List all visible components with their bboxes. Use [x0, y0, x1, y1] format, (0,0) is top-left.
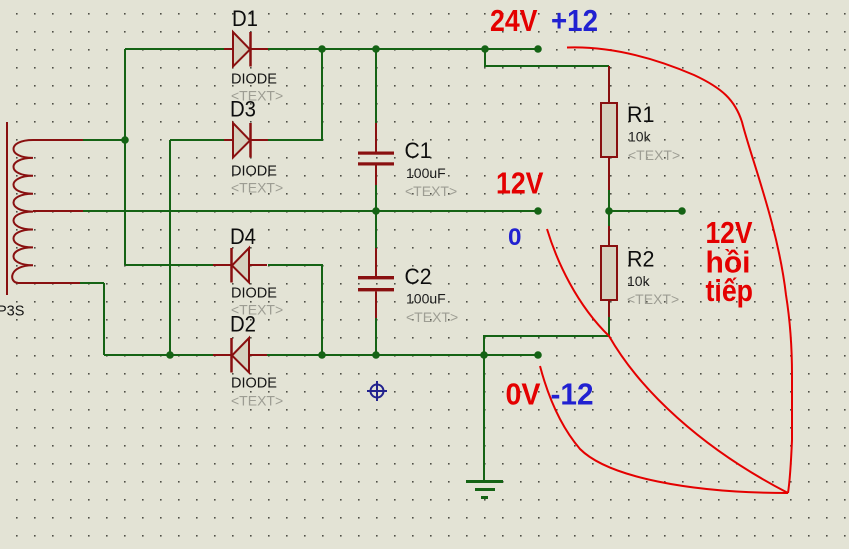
- wire C1 top lead upper: [375, 49, 377, 123]
- diode D3: [233, 123, 250, 158]
- svg-text:<TEXT>: <TEXT>: [628, 147, 680, 163]
- svg-text:DIODE: DIODE: [231, 72, 277, 88]
- wire 24V rail: [268, 48, 538, 50]
- wire 0V bottom rail: [267, 354, 538, 356]
- wire top tap to node: [83, 139, 125, 141]
- svg-text:24V: 24V: [490, 3, 538, 38]
- svg-text:<TEXT>: <TEXT>: [405, 183, 457, 199]
- wire vertical D1 anode / D4 cathode bus x=125: [124, 49, 126, 265]
- svg-text:10k: 10k: [627, 273, 651, 289]
- wire ground stem: [483, 355, 485, 480]
- svg-text:<TEXT>: <TEXT>: [627, 291, 679, 307]
- svg-text:DIODE: DIODE: [231, 376, 277, 392]
- svg-text:DIODE: DIODE: [231, 164, 277, 180]
- svg-text:100uF: 100uF: [406, 165, 446, 181]
- transformer pin top tap: [33, 139, 83, 141]
- junction node dots: [121, 45, 686, 359]
- svg-text:D2: D2: [230, 312, 256, 337]
- wire R2 top lead: [608, 211, 610, 226]
- resistor R1: [601, 103, 617, 157]
- wire R1 R2 junction stub right: [609, 210, 682, 212]
- svg-text:12V: 12V: [496, 166, 544, 201]
- wire 24V jog to R1: [485, 49, 609, 66]
- capacitor C1 leads: [375, 123, 377, 185]
- wire D4 cathode horizontal: [125, 264, 213, 266]
- svg-text:-12: -12: [551, 377, 594, 412]
- resistor R2: [601, 246, 617, 300]
- diode D2: [232, 338, 249, 373]
- diode D1 leads: [224, 48, 268, 50]
- diode D1: [233, 32, 250, 67]
- resistor R2 leads: [608, 226, 610, 317]
- svg-text:D3: D3: [230, 97, 256, 122]
- svg-text:tiếp: tiếp: [706, 273, 754, 308]
- wire bottom tap to corner: [80, 282, 104, 284]
- wire D2 cathode horizontal: [104, 354, 213, 356]
- svg-text:C1: C1: [405, 138, 432, 163]
- svg-text:100uF: 100uF: [406, 291, 446, 307]
- transformer pin bottom tap: [18, 282, 80, 284]
- annotation curve from +12: [567, 47, 792, 493]
- svg-text:P3S: P3S: [0, 304, 24, 320]
- svg-text:0: 0: [508, 224, 522, 251]
- wire R2 bottom jog to 0V rail: [484, 317, 609, 355]
- svg-text:DIODE: DIODE: [231, 286, 277, 302]
- wire R1 bottom to junction: [608, 190, 610, 211]
- svg-text:<TEXT>: <TEXT>: [406, 309, 458, 325]
- diode D2 leads: [213, 354, 267, 356]
- wire C2 top lead upper: [375, 211, 377, 248]
- transformer TR1 secondary coil: [12, 140, 33, 283]
- transformer TR1 core: [6, 122, 8, 295]
- svg-text:<TEXT>: <TEXT>: [231, 180, 283, 196]
- diode D4: [232, 248, 249, 283]
- capacitor C2: [358, 276, 394, 279]
- svg-text:0V: 0V: [506, 377, 541, 412]
- svg-text:D1: D1: [232, 6, 258, 31]
- capacitor C1: [358, 152, 394, 155]
- origin marker crosshair: [367, 381, 387, 401]
- svg-text:D4: D4: [230, 224, 256, 249]
- wire C2 bottom lead lower: [375, 318, 377, 355]
- wire D1 anode horizontal: [125, 48, 224, 50]
- svg-text:+12: +12: [551, 3, 598, 38]
- svg-text:R1: R1: [627, 102, 655, 127]
- svg-text:C2: C2: [405, 264, 432, 289]
- wire D4 anode to 0V rail: [268, 265, 322, 355]
- annotation curve from 0: [547, 229, 788, 493]
- capacitor C2 leads: [375, 248, 377, 318]
- svg-text:10k: 10k: [628, 129, 652, 145]
- wire D3 anode horizontal: [170, 139, 224, 141]
- svg-text:<TEXT>: <TEXT>: [231, 393, 283, 409]
- wire C1 bottom lead lower: [375, 185, 377, 211]
- diode D3 leads: [224, 139, 268, 141]
- transformer pin center tap: [33, 210, 83, 212]
- svg-text:R2: R2: [627, 247, 655, 272]
- wire D3 cathode to rail: [268, 49, 322, 140]
- annotation curve from 0V: [540, 366, 788, 493]
- ground: [466, 482, 503, 498]
- diode D4 leads: [213, 264, 267, 266]
- wire vertical D3 anode to D2 row x=170: [169, 140, 171, 355]
- wire 12V middle rail: [83, 210, 538, 212]
- resistor R1 leads: [608, 66, 610, 190]
- wire vertical bottom tap x=104: [103, 283, 105, 355]
